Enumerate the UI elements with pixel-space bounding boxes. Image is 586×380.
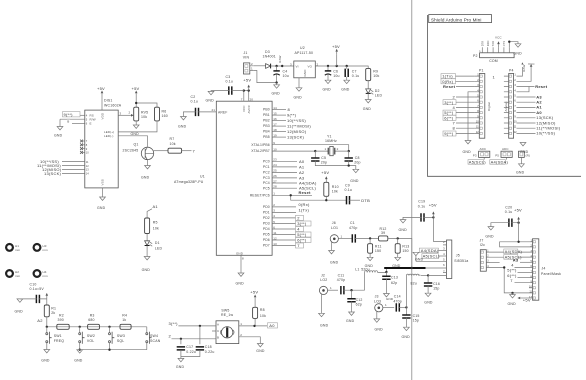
svg-text:R8: R8	[260, 308, 265, 312]
svg-text:GND: GND	[236, 251, 244, 255]
rotary encoder SW5 RE_1w	[212, 309, 267, 344]
svg-text:+5V: +5V	[321, 170, 329, 175]
svg-text:Reset: Reset	[443, 84, 456, 89]
svg-text:D2: D2	[375, 89, 380, 93]
keypad ladder wire	[47, 326, 147, 328]
svg-text:1: 1	[330, 286, 332, 290]
AVR RESET pin	[272, 194, 312, 196]
svg-text:I2c: I2c	[480, 243, 485, 247]
svg-text:E: E	[90, 122, 92, 126]
svg-text:VCC: VCC	[495, 35, 502, 39]
svg-text:P1: P1	[479, 69, 484, 73]
svg-text:P2: P2	[473, 54, 478, 58]
ground lcd rw	[57, 127, 63, 130]
svg-text:C18: C18	[205, 345, 212, 349]
svg-text:11: 11	[86, 160, 89, 164]
svg-text:GND: GND	[516, 170, 525, 174]
ground D1	[144, 257, 150, 260]
svg-text:VO: VO	[308, 65, 313, 69]
svg-text:GND: GND	[294, 95, 303, 99]
svg-text:Shield Arduino Pro Mini: Shield Arduino Pro Mini	[431, 17, 482, 22]
wire J7 pin2 to J4 A5(SCL)	[490, 256, 533, 258]
ground P2	[509, 42, 518, 48]
mounting hole H1	[6, 244, 20, 252]
LCD unconnected data pins D0-D3	[80, 139, 89, 154]
LCD display DIS1 WC1602A	[85, 110, 118, 188]
svg-text:GND: GND	[323, 88, 332, 92]
connector P1 Digital	[474, 69, 495, 139]
svg-text:GND: GND	[402, 335, 411, 339]
svg-text:C3: C3	[226, 75, 231, 79]
svg-text:R2: R2	[59, 313, 64, 317]
ground SW1	[44, 350, 50, 353]
resistor R10 10k	[324, 182, 329, 196]
AVR XTAL2 pin wire	[272, 150, 315, 152]
power +5V LCD	[97, 86, 105, 110]
wire VCC AVCC to +5V	[244, 91, 249, 102]
svg-text:11(**/MOSI): 11(**/MOSI)	[287, 124, 311, 129]
AVR PB3 pin to label 11(**-MOSI)	[272, 125, 286, 127]
svg-text:PC3: PC3	[263, 176, 270, 180]
capacitor C1 470p	[352, 234, 355, 242]
svg-text:10: 10	[273, 147, 277, 151]
svg-text:XTAL1/PB6: XTAL1/PB6	[251, 143, 270, 147]
svg-text:3: 3	[273, 209, 275, 213]
wire +5V rail to module pin1	[433, 217, 446, 241]
wire U2 output 5V rail	[315, 66, 368, 68]
svg-text:U2: U2	[300, 46, 305, 50]
net label RAW P4	[517, 67, 523, 76]
svg-text:+5V: +5V	[250, 290, 258, 295]
svg-text:4: 4	[443, 252, 445, 256]
svg-text:PD1: PD1	[263, 211, 270, 215]
LCD data D7 label 13(SCK)	[62, 172, 85, 174]
svg-text:C7: C7	[352, 69, 357, 73]
svg-text:mm: mm	[43, 274, 49, 278]
svg-text:C5: C5	[321, 156, 326, 160]
svg-text:+5V: +5V	[132, 86, 140, 91]
svg-text:C8: C8	[355, 156, 360, 160]
ground C12	[349, 312, 355, 315]
svg-text:62p: 62p	[391, 281, 397, 285]
svg-text:C2: C2	[191, 95, 196, 99]
ground C3	[208, 91, 214, 94]
svg-text:LED(-): LED(-)	[104, 134, 113, 138]
net label A5(SCL)	[483, 157, 485, 159]
ground U2	[298, 78, 300, 88]
svg-text:J6: J6	[332, 221, 336, 225]
LCD data D5 label 11(**-MOSI)	[62, 165, 85, 167]
svg-text:PB1: PB1	[263, 113, 270, 117]
capacitor C17 0.22u	[180, 339, 182, 345]
capacitor C10 0.1u	[20, 283, 47, 303]
svg-text:J7: J7	[480, 238, 484, 242]
svg-text:PC1: PC1	[263, 165, 270, 169]
resistor R8 10k	[253, 307, 258, 318]
svg-text:0.1u: 0.1u	[418, 204, 426, 208]
connector J4 Panel/Mask	[529, 239, 561, 300]
AVR PB0 pin to label 8	[272, 109, 286, 111]
svg-text:GND: GND	[350, 179, 359, 183]
svg-text:GND: GND	[176, 365, 185, 369]
svg-text:VI: VI	[296, 65, 299, 69]
LCD pin5 R/W wire to GND	[60, 119, 85, 126]
ground J2	[319, 313, 325, 316]
wire +5V to J4 pin1 and loop	[500, 223, 533, 247]
svg-text:PB0: PB0	[263, 108, 270, 112]
svg-text:3: 3	[290, 62, 292, 66]
capacitor C14 470p	[396, 303, 399, 311]
svg-text:C11: C11	[338, 274, 345, 278]
LCD VSS wire to ground	[102, 188, 104, 197]
svg-text:GND: GND	[97, 206, 106, 210]
svg-text:P3: P3	[473, 153, 477, 157]
mounting hole H2	[6, 270, 20, 278]
power VCC P4	[517, 70, 532, 81]
svg-text:AREF: AREF	[218, 110, 227, 114]
power +5V reset pullup	[325, 176, 328, 182]
P1 pin labels left	[441, 74, 474, 137]
svg-text:Analog: Analog	[504, 101, 508, 111]
resistor R4 1k	[120, 324, 131, 329]
ground C6	[325, 80, 331, 83]
diode D3 1N4001	[263, 50, 294, 68]
svg-text:A1: A1	[299, 164, 305, 169]
svg-text:2: 2	[129, 111, 131, 115]
svg-text:mm: mm	[15, 274, 21, 278]
LCD data D4 label 10(**-SS)	[62, 161, 85, 163]
svg-text:D3: D3	[265, 50, 270, 54]
svg-text:+5V: +5V	[97, 86, 105, 91]
svg-text:20: 20	[250, 97, 254, 101]
AVR PD5 pin label 5(**)	[272, 234, 295, 236]
module connector J5 Si5351a	[443, 240, 468, 279]
svg-text:C13: C13	[391, 275, 398, 279]
svg-text:150: 150	[402, 249, 408, 253]
ground C7	[344, 80, 350, 83]
svg-text:PD2: PD2	[263, 216, 270, 220]
svg-text:AP1117-50: AP1117-50	[295, 51, 314, 55]
svg-text:9: 9	[273, 141, 275, 145]
svg-text:PD0: PD0	[263, 205, 270, 209]
svg-text:3(**): 3(**)	[297, 221, 307, 226]
ground encoder pin2	[257, 344, 263, 347]
potentiometer RV5 10k	[134, 107, 139, 121]
svg-text:VCC: VCC	[528, 62, 535, 66]
svg-text:SQL: SQL	[117, 339, 125, 343]
svg-text:FREQ: FREQ	[54, 339, 65, 343]
svg-text:5(**): 5(**)	[297, 232, 307, 237]
svg-text:GND: GND	[54, 134, 63, 138]
svg-text:RAW: RAW	[278, 55, 282, 62]
svg-text:GND: GND	[41, 359, 50, 363]
svg-text:1: 1	[251, 67, 253, 71]
ground Q1 emitter	[147, 160, 149, 166]
resistor R6 160	[155, 107, 160, 121]
svg-text:GND: GND	[142, 268, 151, 272]
svg-text:GND: GND	[424, 300, 433, 304]
svg-text:14: 14	[273, 106, 277, 110]
svg-text:R10: R10	[332, 185, 339, 189]
regulator U2 AP1117-50	[290, 46, 319, 78]
capacitor C4 10u polarized	[273, 66, 288, 83]
svg-text:150: 150	[375, 249, 381, 253]
svg-text:DTR: DTR	[480, 41, 484, 47]
ground C16	[425, 293, 431, 296]
ground J6	[329, 251, 335, 254]
capacitor C19 0.1u	[421, 213, 424, 221]
svg-text:10: 10	[86, 151, 90, 155]
AVR PD1 pin label 1(Tx)	[272, 211, 296, 213]
svg-text:RESET/PC6: RESET/PC6	[250, 193, 270, 197]
ground R11	[367, 257, 373, 260]
power +5V J4 bottom pin	[523, 297, 532, 299]
connector J6 LO1	[330, 221, 352, 251]
capacitor C15 15p	[405, 307, 407, 315]
svg-text:390: 390	[58, 318, 64, 322]
svg-text:470p: 470p	[349, 226, 358, 230]
svg-text:A5(SCL): A5(SCL)	[423, 254, 441, 259]
svg-text:10u: 10u	[333, 74, 339, 78]
capacitor C16 15p	[427, 275, 429, 283]
resistor R7 10k	[154, 150, 168, 152]
net label A5(SCL) module	[422, 254, 439, 259]
svg-text:2k: 2k	[51, 311, 55, 315]
svg-text:LO3: LO3	[374, 299, 381, 303]
capacitor C5 20p	[314, 151, 316, 158]
svg-text:GND: GND	[346, 319, 355, 323]
svg-text:GND: GND	[363, 107, 372, 111]
ground C4	[276, 83, 278, 85]
svg-text:1(Tx): 1(Tx)	[299, 207, 310, 212]
svg-text:GND: GND	[514, 51, 523, 55]
svg-text:ADC: ADC	[502, 147, 509, 151]
svg-text:GND: GND	[74, 359, 83, 363]
svg-text:5: 5	[273, 220, 275, 224]
svg-text:470p: 470p	[393, 299, 402, 303]
capacitor C3 0.1u	[229, 86, 232, 94]
bus thick wire	[384, 267, 425, 269]
svg-text:PB4: PB4	[263, 130, 270, 134]
svg-text:DTB: DTB	[361, 198, 370, 203]
svg-text:RV5: RV5	[141, 111, 148, 115]
svg-text:10(**/SS): 10(**/SS)	[536, 131, 555, 136]
svg-text:GND: GND	[485, 235, 494, 239]
ground C20	[488, 227, 494, 230]
svg-text:TXD: TXD	[491, 41, 495, 47]
ground D2	[365, 100, 371, 103]
svg-text:R7: R7	[170, 137, 175, 141]
svg-text:13(SCK): 13(SCK)	[44, 171, 62, 176]
AVR PD0 pin label 0(Rx)	[272, 206, 296, 208]
ground P4	[520, 143, 526, 146]
connector J2 LO2	[319, 274, 338, 314]
capacitor C18 0.22u	[199, 326, 201, 344]
svg-text:SW5: SW5	[221, 309, 229, 313]
ground J3	[374, 319, 380, 322]
svg-text:J1: J1	[244, 51, 248, 55]
AVR PD3 pin label 3(**)	[272, 223, 295, 225]
svg-text:0.1u: 0.1u	[345, 188, 353, 192]
svg-text:C19: C19	[418, 199, 425, 203]
svg-text:4: 4	[273, 214, 275, 218]
wire +5V to RV5 and R6	[136, 97, 157, 108]
svg-text:A2: A2	[37, 318, 43, 323]
svg-text:PD3: PD3	[263, 222, 270, 226]
svg-text:82u: 82u	[411, 282, 417, 286]
net label A0	[268, 323, 278, 328]
svg-text:0.1u=5V: 0.1u=5V	[30, 287, 45, 291]
ground RV5	[135, 121, 137, 125]
svg-text:16MHz: 16MHz	[325, 139, 337, 143]
capacitor C17 470p	[341, 286, 344, 294]
svg-text:GND: GND	[256, 349, 265, 353]
wire crystal caps to ground	[315, 161, 356, 170]
svg-text:1k: 1k	[122, 318, 126, 322]
ground P6	[520, 157, 522, 163]
svg-text:10k: 10k	[373, 74, 379, 78]
svg-text:A4(SDA): A4(SDA)	[505, 249, 523, 254]
svg-text:B: B	[217, 335, 219, 339]
svg-text:C6: C6	[333, 69, 338, 73]
svg-text:A0: A0	[299, 159, 305, 164]
svg-text:SW3: SW3	[117, 334, 125, 338]
switch SW1 FREQ	[46, 327, 64, 350]
svg-text:0.22u: 0.22u	[205, 350, 215, 354]
svg-text:RE_1w: RE_1w	[221, 313, 233, 317]
svg-text:1: 1	[240, 322, 242, 326]
svg-text:13: 13	[273, 242, 277, 246]
svg-text:J4: J4	[542, 266, 546, 270]
svg-text:PC4: PC4	[263, 181, 270, 185]
svg-text:6: 6	[273, 225, 275, 229]
svg-text:(R): (R)	[526, 153, 530, 157]
svg-text:0.1u: 0.1u	[505, 210, 513, 214]
svg-text:GND: GND	[178, 125, 187, 129]
svg-text:GND: GND	[415, 257, 424, 261]
ground R13	[395, 257, 401, 260]
capacitor C9 0.1u	[347, 196, 350, 204]
AVR PB2 pin to label 10(**-SS)	[272, 120, 286, 122]
ground module	[416, 256, 447, 262]
svg-text:PC0: PC0	[263, 159, 270, 163]
AVR XTAL1 pin wire	[272, 145, 349, 151]
svg-text:1: 1	[385, 303, 387, 307]
ground C10	[17, 299, 23, 302]
capacitor C2 0.1u on AREF	[196, 108, 199, 116]
ground C19	[400, 220, 406, 223]
svg-text:10k: 10k	[170, 142, 176, 146]
wire filter out down right edge	[411, 238, 413, 268]
svg-text:J3: J3	[375, 295, 379, 299]
svg-text:GND: GND	[272, 92, 281, 96]
svg-text:7: 7	[241, 97, 243, 101]
ground encoder caps	[181, 350, 200, 358]
svg-text:A4(SDA): A4(SDA)	[421, 248, 439, 253]
AVR PD2 pin label 2	[272, 217, 295, 219]
svg-text:9(**): 9(**)	[444, 131, 454, 136]
AVR PD7 pin label 7	[272, 245, 295, 247]
svg-text:GND: GND	[508, 302, 517, 306]
svg-text:10k: 10k	[141, 115, 147, 119]
power +5V module rail	[432, 216, 434, 218]
svg-text:CTS: CTS	[502, 41, 506, 47]
MCU U1 ATmega328P-PU body	[216, 101, 272, 255]
svg-text:P5: P5	[495, 153, 499, 157]
connector P6	[519, 151, 530, 157]
svg-text:16: 16	[273, 117, 277, 121]
svg-text:XTAL2/PB7: XTAL2/PB7	[251, 149, 270, 153]
svg-text:PD4: PD4	[263, 227, 270, 231]
svg-text:D1: D1	[155, 241, 160, 245]
svg-text:24: 24	[273, 163, 277, 167]
svg-text:19: 19	[273, 133, 277, 137]
capacitor C12 62p	[351, 290, 353, 299]
svg-text:6: 6	[443, 263, 445, 267]
capacitor C7 0.1u	[345, 69, 348, 77]
svg-text:PB3: PB3	[263, 124, 270, 128]
svg-text:LED: LED	[155, 246, 163, 250]
svg-text:1: 1	[325, 147, 327, 151]
svg-text:0.1u: 0.1u	[191, 100, 199, 104]
svg-text:GND: GND	[141, 175, 150, 179]
svg-text:10k: 10k	[260, 314, 266, 318]
wire bus to module pin6	[426, 267, 447, 269]
connector P2 COM	[473, 47, 514, 63]
P4 pin labels right	[536, 94, 560, 135]
svg-text:10(**/SS): 10(**/SS)	[287, 118, 306, 123]
svg-text:9(**): 9(**)	[64, 112, 74, 117]
svg-text:J5: J5	[456, 254, 460, 258]
svg-text:0.1u: 0.1u	[226, 79, 234, 83]
svg-text:C10: C10	[30, 283, 37, 287]
svg-text:GND: GND	[399, 228, 408, 232]
svg-text:Panel/Mask: Panel/Mask	[541, 272, 561, 276]
svg-text:12: 12	[86, 164, 90, 168]
svg-text:RAW: RAW	[522, 65, 526, 72]
svg-text:13(SCK): 13(SCK)	[287, 135, 305, 140]
svg-text:17: 17	[273, 122, 277, 126]
svg-text:680: 680	[88, 318, 94, 322]
svg-text:R6: R6	[162, 109, 167, 113]
transistor Q1 2SC2645	[123, 143, 154, 160]
capacitor C20 0.1u	[509, 219, 512, 227]
svg-text:R3: R3	[90, 313, 95, 317]
inductor L2 82u	[406, 274, 428, 307]
svg-text:Si5351a: Si5351a	[454, 259, 468, 263]
svg-text:Digital: Digital	[487, 102, 491, 111]
ground P1 pin4	[468, 92, 474, 141]
svg-text:RXD: RXD	[486, 40, 490, 46]
power arrow keypad	[46, 293, 49, 299]
svg-text:A: A	[217, 322, 219, 326]
svg-text:+5V: +5V	[243, 78, 251, 83]
svg-text:GND: GND	[15, 310, 24, 314]
wire J7 pin1 to J4 A4(SDA)	[490, 251, 533, 253]
svg-text:Reset: Reset	[299, 190, 312, 195]
connector P5 ADC	[495, 147, 512, 157]
svg-text:2: 2	[273, 203, 275, 207]
svg-text:8: 8	[242, 257, 244, 261]
svg-text:3: 3	[120, 112, 122, 116]
wire J7 pin3 up to J4 pin2	[490, 261, 500, 263]
svg-text:7: 7	[443, 270, 445, 274]
svg-text:C12: C12	[356, 298, 363, 302]
LCD data D6 label 12(MISO)	[62, 169, 85, 171]
AVR GND pin to ground	[240, 255, 242, 273]
svg-text:27: 27	[273, 179, 277, 183]
svg-text:1: 1	[273, 192, 275, 196]
